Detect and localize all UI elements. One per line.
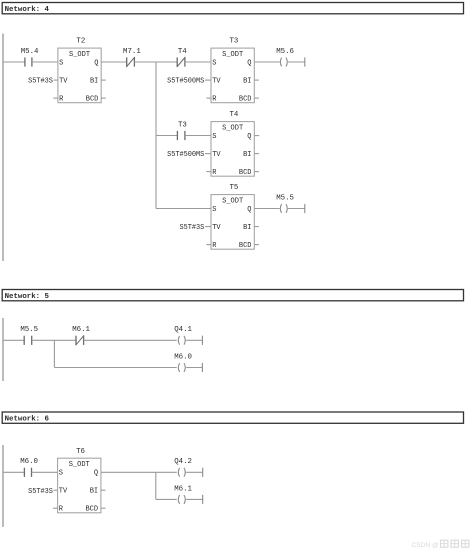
svg-text:M6.1: M6.1 — [72, 326, 90, 334]
svg-text:M7.1: M7.1 — [123, 48, 141, 56]
coil M5.5 — [276, 194, 294, 213]
wire — [186, 471, 203, 473]
wire — [101, 471, 177, 473]
svg-text:Q4.1: Q4.1 — [174, 326, 192, 334]
right rail terminator — [201, 336, 203, 345]
value S5T#3S to TV of T2 — [28, 78, 58, 86]
svg-text:BCD: BCD — [85, 505, 98, 513]
svg-text:TV: TV — [212, 77, 221, 85]
svg-text:T3: T3 — [230, 38, 239, 46]
branch junction — [155, 62, 157, 209]
value S5T#500MS to TV of T4 — [167, 151, 211, 159]
right rail terminator — [304, 57, 306, 66]
svg-text:M6.1: M6.1 — [174, 485, 192, 493]
pin BCD stub of T4 — [254, 171, 259, 173]
svg-text:S: S — [212, 59, 216, 67]
svg-text:T2: T2 — [76, 38, 85, 46]
right rail terminator — [304, 204, 306, 213]
contact NO M5.5 — [20, 326, 38, 345]
wire — [186, 498, 203, 500]
contact NO M6.0 — [20, 458, 38, 477]
svg-text:S_ODT: S_ODT — [222, 51, 243, 59]
pin R stub of T6 — [53, 507, 58, 509]
wire — [3, 339, 24, 341]
svg-text:S: S — [59, 59, 63, 67]
network 6 left power rail — [2, 445, 4, 527]
svg-text:M6.0: M6.0 — [20, 458, 38, 466]
svg-text:BCD: BCD — [239, 95, 252, 103]
wire — [54, 367, 176, 369]
wire — [185, 135, 211, 137]
wire — [288, 208, 305, 210]
pin BI stub of T6 — [101, 489, 106, 491]
svg-text:M5.6: M5.6 — [276, 48, 294, 56]
network 4 header — [2, 3, 463, 15]
svg-text:T5: T5 — [230, 184, 239, 192]
network 5 left power rail — [2, 318, 4, 381]
wire — [134, 61, 177, 63]
wire — [32, 339, 76, 341]
contact NC T4 — [177, 48, 187, 67]
svg-text:S5T#3S: S5T#3S — [28, 78, 53, 86]
svg-text:TV: TV — [212, 224, 221, 232]
svg-text:S_ODT: S_ODT — [69, 461, 90, 469]
wire — [32, 471, 58, 473]
contact NO M5.4 — [21, 48, 39, 67]
branch junction — [53, 340, 55, 367]
svg-text:Network: 5: Network: 5 — [5, 293, 50, 301]
svg-text:T6: T6 — [76, 448, 85, 456]
svg-text:BI: BI — [90, 487, 98, 495]
svg-text:Network: 4: Network: 4 — [5, 6, 50, 14]
svg-text:Q: Q — [247, 206, 251, 214]
value S5T#500MS to TV of T3 — [167, 78, 211, 86]
svg-text:S_ODT: S_ODT — [69, 51, 90, 59]
svg-text:BCD: BCD — [239, 169, 252, 177]
wire — [32, 61, 58, 63]
coil Q4.1 — [174, 326, 192, 345]
value S5T#3S to TV of T5 — [179, 224, 211, 232]
pin BI stub of T4 — [254, 153, 259, 155]
timer T4 (S_ODT) — [211, 111, 254, 177]
svg-text:S: S — [212, 206, 216, 214]
wire — [185, 61, 211, 63]
pin BI stub of T2 — [101, 79, 106, 81]
wire — [3, 471, 24, 473]
wire — [288, 61, 305, 63]
svg-text:BCD: BCD — [86, 95, 99, 103]
svg-text:BI: BI — [243, 77, 251, 85]
svg-text:BCD: BCD — [239, 242, 252, 250]
svg-text:BI: BI — [243, 151, 251, 159]
svg-text:S5T#500MS: S5T#500MS — [167, 78, 204, 86]
coil M6.0 — [174, 353, 192, 372]
wire — [156, 498, 177, 500]
watermark CSDN — [412, 540, 469, 549]
svg-text:Q: Q — [247, 59, 251, 67]
svg-text:S_ODT: S_ODT — [222, 125, 243, 133]
contact NC M6.1 — [72, 326, 90, 345]
contact NC M7.1 — [123, 48, 141, 67]
svg-text:M6.0: M6.0 — [174, 353, 192, 361]
wire — [186, 367, 202, 369]
network 4 left power rail — [2, 34, 4, 262]
pin R stub of T4 — [206, 171, 211, 173]
value S5T#3S to TV of T6 — [28, 488, 58, 496]
svg-text:BI: BI — [90, 77, 98, 85]
svg-text:M5.5: M5.5 — [20, 326, 38, 334]
wire — [186, 339, 202, 341]
pin BCD stub of T6 — [101, 507, 106, 509]
svg-text:S5T#500MS: S5T#500MS — [167, 151, 204, 159]
network 5 header — [2, 290, 463, 302]
contact NO T3 — [177, 121, 186, 140]
svg-text:Q: Q — [94, 469, 98, 477]
svg-text:M5.4: M5.4 — [21, 48, 39, 56]
svg-text:TV: TV — [212, 151, 221, 159]
svg-text:T4: T4 — [230, 111, 239, 119]
wire — [156, 135, 177, 137]
pin R stub of T3 — [206, 97, 211, 99]
coil Q4.2 — [174, 458, 192, 477]
svg-text:M5.5: M5.5 — [276, 194, 294, 202]
wire — [84, 339, 177, 341]
coil M6.1 — [174, 485, 192, 504]
pin BI stub of T5 — [254, 226, 259, 228]
timer T6 (S_ODT) — [58, 448, 101, 514]
svg-text:T4: T4 — [178, 48, 187, 56]
network 6 header — [2, 412, 463, 424]
wire — [3, 61, 25, 63]
right rail terminator — [202, 495, 204, 504]
wire — [156, 208, 211, 210]
right rail terminator — [201, 363, 203, 372]
svg-text:TV: TV — [59, 487, 68, 495]
pin BCD stub of T5 — [254, 244, 259, 246]
svg-text:Q: Q — [247, 133, 251, 141]
timer T5 (S_ODT) — [211, 184, 254, 250]
wire — [254, 208, 279, 210]
svg-text:BI: BI — [243, 224, 251, 232]
svg-text:S: S — [59, 469, 63, 477]
timer T3 (S_ODT) — [211, 38, 254, 104]
svg-text:CSDN @: CSDN @ — [412, 542, 440, 549]
pin R stub of T2 — [53, 97, 58, 99]
svg-text:Q: Q — [94, 59, 98, 67]
svg-text:S5T#3S: S5T#3S — [28, 488, 53, 496]
wire — [101, 61, 127, 63]
svg-text:S5T#3S: S5T#3S — [179, 224, 204, 232]
svg-text:TV: TV — [59, 77, 68, 85]
pin R stub of T5 — [206, 244, 211, 246]
branch junction — [155, 472, 157, 499]
coil M5.6 — [276, 48, 294, 67]
svg-text:S: S — [212, 133, 216, 141]
svg-text:T3: T3 — [178, 121, 187, 129]
pin BCD stub of T2 — [101, 97, 106, 99]
pin BCD stub of T3 — [254, 97, 259, 99]
right rail terminator — [202, 468, 204, 477]
svg-text:Q4.2: Q4.2 — [174, 458, 192, 466]
svg-text:Network: 6: Network: 6 — [5, 416, 50, 424]
timer T2 (S_ODT) — [58, 38, 101, 104]
svg-text:S_ODT: S_ODT — [222, 198, 243, 206]
pin Q stub of T4 — [254, 135, 259, 137]
pin BI stub of T3 — [254, 79, 259, 81]
wire — [254, 61, 279, 63]
